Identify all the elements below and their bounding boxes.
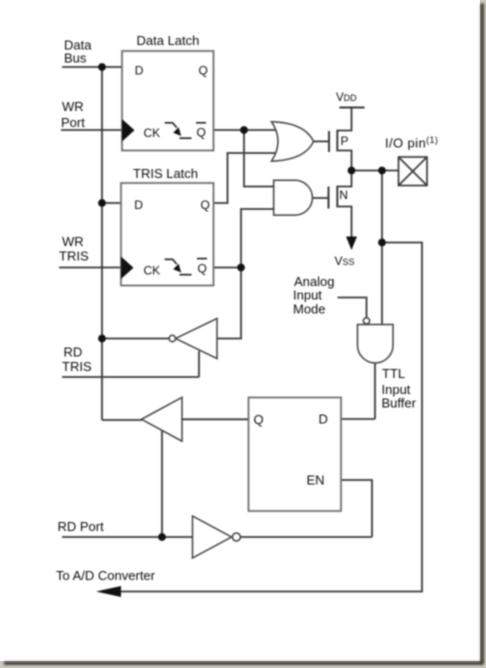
transistor N drain/source leads [337,171,351,239]
tris latch U2 box [121,183,214,286]
wire: RD Port input [62,536,193,538]
wire: TTL buffer output stem [374,363,376,419]
wire: latch Q to output buffer [182,418,249,420]
svg-text:TRIS: TRIS [62,359,92,374]
ttl buffer inverting bubble [363,318,369,324]
and-gate G2 [274,180,313,215]
wire: data bus vertical column [102,67,142,420]
wire: RD TRIS buffer output to column [102,338,170,340]
svg-text:TTL: TTL [382,366,405,381]
falling edge glyph arrowhead (data latch) [173,127,181,136]
rd port inverter bubble [232,533,240,541]
junction: data bus / data latch D [98,63,106,71]
wire: junction down to RD TRIS buffer input [217,268,241,339]
svg-text:Data Latch: Data Latch [137,33,200,48]
ttl input buffer gate G3 [358,325,394,363]
svg-text:P: P [341,134,349,148]
svg-text:Bus: Bus [64,51,87,66]
transistor N gate bar [328,187,330,209]
svg-text:D: D [319,412,328,427]
wire: column tap to TRIS latch D [102,202,121,204]
wire: analog input mode to TTL buffer bubble [338,298,367,318]
data latch U1 box [122,51,214,151]
falling edge glyph (TRIS latch) [165,259,192,274]
Qbar overline (TRIS latch) [197,258,207,260]
enable latch U3 box [249,398,342,512]
rd port inverter U6 [193,516,232,558]
wire: data latch Qbar branch to AND gate top input [244,130,278,187]
or-gate G1 [272,122,314,161]
svg-text:TRIS: TRIS [59,249,89,264]
wire: OR gate output to P gate [314,140,329,142]
svg-text:Q: Q [197,125,206,139]
wire: latch D input [341,418,375,420]
wire: TRIS latch Qbar to junction [214,267,242,269]
VDD rail [339,107,364,109]
wire: pin node row to I/O pin [352,170,399,172]
svg-text:Q: Q [254,412,264,427]
wire: RD Port inverter output [241,536,373,538]
junction: column / TRIS latch D [98,199,106,207]
svg-text:RD: RD [64,345,83,360]
bottom shadow edge [4,662,483,665]
svg-text:RD Port: RD Port [58,519,105,534]
wire: pin node down right side column [381,171,383,326]
wire: AND gate output to N gate [313,197,328,199]
svg-text:WR: WR [62,99,84,114]
junction: column / RD TRIS buffer output [98,335,106,343]
falling edge glyph (data latch) [165,123,192,138]
Qbar overline (data latch) [196,122,206,124]
svg-text:EN: EN [307,473,325,488]
svg-text:TRIS Latch: TRIS Latch [133,166,198,181]
svg-text:CK: CK [144,126,161,140]
svg-text:Q: Q [198,262,207,276]
svg-text:Buffer: Buffer [382,396,417,411]
svg-text:N: N [339,188,348,202]
clock input triangle (TRIS latch) [121,257,134,280]
transistor N channel bar [336,186,338,208]
svg-text:Q: Q [199,64,208,78]
transistor P channel bar [336,130,338,152]
transistor P gate bar [328,131,330,152]
svg-text:CK: CK [144,264,161,278]
svg-text:WR: WR [62,234,84,249]
svg-text:D: D [134,198,143,212]
falling edge glyph arrowhead (TRIS latch) [173,264,181,273]
svg-text:Q: Q [201,198,210,212]
Vss arrow head [346,237,357,251]
svg-text:Port: Port [61,115,85,130]
wire: WR TRIS to TRIS latch CK [59,267,121,269]
i/o pin pad symbol [399,157,428,186]
wire: RD Port junction up to output buffer [161,430,163,537]
wire: branch to A/D converter loop [121,243,422,592]
clock input triangle (data latch) [122,119,135,142]
transistor P drain/source leads [337,108,351,171]
svg-text:Mode: Mode [293,302,326,317]
rd tris buffer bubble [169,335,175,341]
svg-text:VSS: VSS [335,254,355,268]
junction: P/N drain node [348,167,356,175]
wire: data latch Qbar to OR gate top input [214,129,279,131]
wire: data bus horizontal [62,66,122,68]
junction: RD Port / buffer control [158,533,166,541]
junction: TRIS latch Qbar node [237,264,245,272]
wire: RD TRIS control [62,351,199,377]
wire: TRIS latch Q to OR gate bottom input [214,153,279,203]
svg-text:VDD: VDD [336,92,357,104]
wire: junction up to AND gate bottom input [241,209,278,268]
wire: WR Port to data latch CK [61,129,122,131]
A/D converter arrow head [96,586,121,597]
rd tris buffer U5 [176,319,217,359]
output buffer U4 (tri-state to data bus) [142,397,183,441]
junction: data latch Qbar node [240,126,248,134]
svg-text:D: D [135,64,144,78]
right shadow edge [481,4,484,664]
junction: right column / A-D branch [378,239,386,247]
wire: latch EN input [341,480,372,537]
svg-text:To A/D Converter: To A/D Converter [56,568,156,583]
svg-text:Input: Input [293,288,322,303]
junction: pin node / right column [378,167,386,175]
